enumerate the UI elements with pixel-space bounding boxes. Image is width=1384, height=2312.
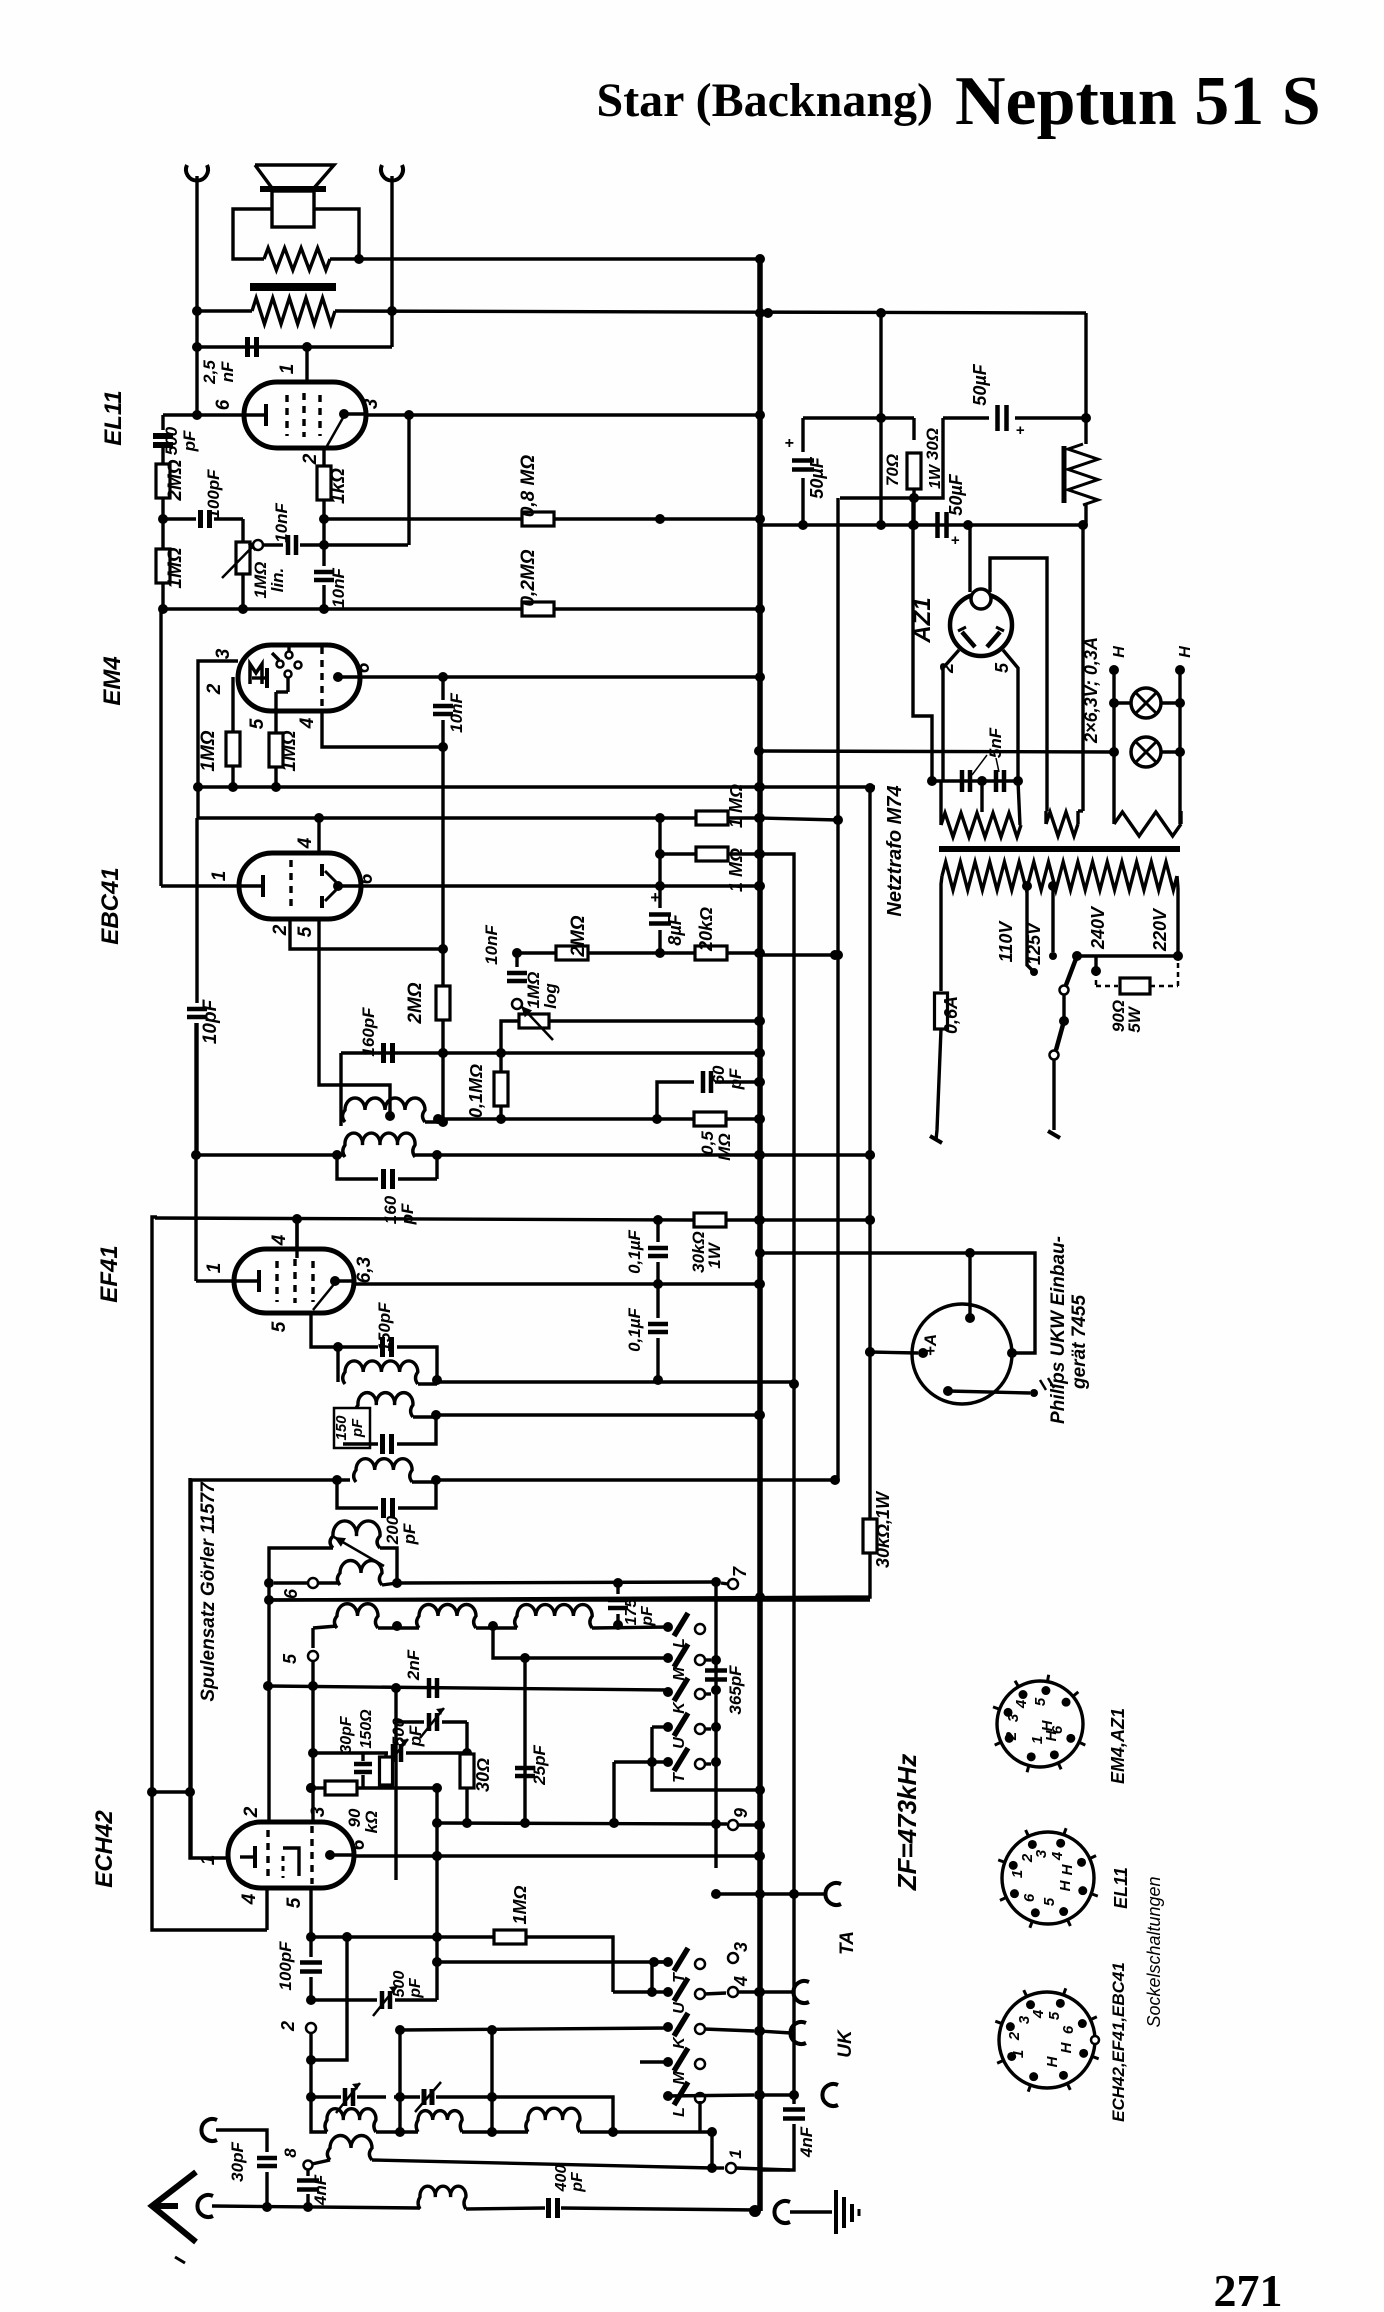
resistor 1MOhm EM4 left — [226, 732, 240, 766]
tube EM4 — [238, 645, 360, 711]
capacitor 160pF upper — [381, 1043, 386, 1063]
main HT bus — [757, 258, 763, 2211]
capacitor 60pF — [657, 1082, 694, 1119]
antenna coil primary — [418, 2186, 466, 2209]
svg-text:271: 271 — [1214, 2265, 1283, 2312]
transformer core — [939, 846, 1180, 852]
wire ECH42 pin6 anode line — [354, 1854, 759, 1857]
wire x467 down with 30 Ohm — [465, 1722, 468, 1753]
tuning coil 1 — [325, 2109, 376, 2132]
IF2 secondary coil — [356, 1393, 413, 1417]
svg-text:pF: pF — [398, 1203, 417, 1225]
EL11 grids dashed — [285, 395, 288, 436]
wire 1220 east — [759, 1218, 870, 1221]
IF1 primary coil — [343, 1133, 415, 1157]
wire x716 vertical — [714, 1582, 717, 1868]
svg-text:220V: 220V — [1150, 907, 1170, 952]
terminal 1 line — [712, 2166, 724, 2169]
primary tap 125V — [1048, 881, 1058, 891]
svg-text:100pF: 100pF — [204, 469, 223, 519]
svg-text:160pF: 160pF — [359, 1007, 378, 1057]
capacitor 100pF osc — [309, 1937, 312, 1957]
capacitor 8uF — [658, 905, 661, 908]
terminal 3 — [728, 1953, 738, 1963]
resistor 2MOhm EL11 grid — [156, 464, 170, 498]
resistor 2MOhm anode — [517, 951, 556, 954]
speaker driver — [272, 191, 314, 227]
tuning coil 3 — [526, 2108, 580, 2132]
wire x152 long vertical — [152, 1217, 267, 1930]
wire EF41 pin1 — [194, 1023, 197, 1281]
speaker terminal left — [186, 165, 208, 181]
svg-text:2: 2 — [204, 683, 225, 695]
svg-text:ECH42: ECH42 — [91, 1810, 118, 1888]
svg-text:3: 3 — [1005, 1713, 1022, 1722]
svg-text:2,5: 2,5 — [200, 360, 219, 385]
wire x1083 down to heater — [1081, 525, 1084, 811]
antenna symbol — [152, 2172, 196, 2242]
svg-text:1: 1 — [726, 2149, 745, 2158]
tuning coil 2 — [416, 2111, 462, 2132]
svg-text:ZF=473kHz: ZF=473kHz — [892, 1754, 922, 1892]
wire x396 down — [394, 1688, 397, 1880]
resistor 20kOhm — [660, 951, 695, 954]
ground symbol — [774, 2201, 790, 2223]
svg-text:50µF: 50µF — [970, 363, 990, 405]
svg-text:0,1MΩ: 0,1MΩ — [466, 1064, 486, 1118]
svg-text:400: 400 — [553, 2165, 570, 2193]
svg-text:30pF: 30pF — [228, 2142, 247, 2182]
svg-text:150pF: 150pF — [375, 1302, 394, 1352]
AZ1 pin 5 lead — [1003, 650, 1018, 781]
trimmer 500pF upper — [396, 1720, 424, 1723]
resistor 0,1MOhm — [499, 1053, 502, 1072]
svg-text:10nF: 10nF — [447, 693, 466, 733]
bus junction dots — [755, 254, 765, 264]
capacitor 2nF line — [268, 1686, 668, 1690]
svg-text:H: H — [1039, 1719, 1056, 1731]
capacitor 10nF wiper — [263, 543, 283, 546]
capacitor 10pF — [195, 818, 198, 1003]
svg-text:6: 6 — [213, 399, 234, 410]
ECH42 cathode — [240, 1855, 254, 1858]
resistor 30kOhm 1W — [694, 1213, 726, 1227]
capacitor 0,1uF upper — [656, 1220, 659, 1242]
capacitor 365pF — [705, 1668, 727, 1673]
wire line 1053 — [341, 1051, 759, 1054]
wire EF41 anode line to bus — [354, 1282, 759, 1285]
wire 4nF east vertical — [792, 2095, 795, 2104]
wire EM4 pin5 — [274, 692, 277, 733]
svg-text:kΩ: kΩ — [362, 1811, 381, 1834]
potentiometer 1MOhm log — [512, 999, 522, 1009]
wire pin3 vertical x313 — [311, 1628, 314, 1648]
svg-text:+: + — [784, 435, 793, 452]
wire line 1119 — [438, 1117, 695, 1120]
wire UKW left pin — [870, 1352, 918, 1353]
resistor 0,8MOhm screen line — [324, 517, 522, 520]
wire x794 down — [792, 1384, 795, 2100]
wire EBC41 pin2 — [290, 919, 443, 949]
svg-text:30Ω: 30Ω — [923, 428, 942, 460]
svg-text:365pF: 365pF — [726, 1665, 745, 1715]
wire coil to x440 — [425, 1120, 443, 1123]
svg-text:H: H — [1057, 1879, 1074, 1891]
svg-text:5: 5 — [247, 718, 268, 729]
AZ1 top leads — [968, 525, 971, 592]
heater winding pilot — [1114, 812, 1181, 836]
wire 160pF left leg — [339, 1053, 342, 1126]
svg-text:6: 6 — [1060, 2025, 1077, 2034]
capacitor 4nF antenna — [306, 2169, 309, 2176]
svg-text:Neptun 51 S: Neptun 51 S — [955, 63, 1321, 140]
svg-text:2×6,3V; 0,3A: 2×6,3V; 0,3A — [1081, 637, 1101, 744]
svg-text:1: 1 — [198, 1855, 219, 1866]
svg-text:5nF: 5nF — [986, 727, 1005, 758]
wire EBC41 pin5 — [319, 919, 390, 1118]
wire pot left to 0,1M — [501, 1021, 519, 1053]
EBC41 cathode — [240, 884, 262, 887]
wire 1253 to UKW — [759, 1253, 970, 1318]
svg-text:1MΩ: 1MΩ — [198, 730, 219, 771]
svg-text:8µF: 8µF — [665, 913, 685, 945]
capacitor 400pF — [546, 2198, 551, 2218]
switch contact K upper — [663, 1687, 673, 1697]
svg-text:4: 4 — [239, 1893, 260, 1905]
wire x913 to 5nF line — [913, 498, 932, 781]
tube EBC41 — [239, 853, 361, 919]
svg-text:+: + — [951, 532, 960, 549]
resistor 90 Ohm 5W dashed — [1094, 956, 1097, 969]
IF2 primary coil — [336, 1347, 339, 1382]
capacitor 150pF IF2 — [338, 1345, 378, 1348]
svg-text:50µF: 50µF — [946, 473, 966, 515]
tube EF41 — [234, 1249, 354, 1313]
EL11 anode — [339, 409, 349, 419]
svg-text:125V: 125V — [1024, 921, 1044, 965]
svg-text:EL11: EL11 — [100, 390, 127, 446]
svg-text:175: 175 — [623, 1598, 640, 1626]
wire pin3 branch down — [407, 415, 410, 545]
trimmer solid — [422, 2089, 427, 2105]
svg-text:gerät 7455: gerät 7455 — [1069, 1295, 1090, 1390]
svg-text:6: 6 — [353, 662, 374, 673]
wire trimmer line 2097 — [311, 2095, 341, 2098]
wire EL11 pin1 — [305, 347, 308, 382]
ECH42 anode — [325, 1850, 335, 1860]
socket ECH42 group — [999, 1992, 1095, 2088]
svg-text:30Ω: 30Ω — [473, 1758, 493, 1792]
svg-text:240V: 240V — [1088, 905, 1108, 950]
transformer primary winding — [942, 862, 1177, 890]
EL11 cathode — [246, 413, 266, 416]
capacitor 10nF volume — [515, 953, 518, 967]
resistor 70/30 Ohm — [912, 418, 915, 440]
svg-text:pF: pF — [407, 1977, 424, 1999]
capacitor 150pF on 1444 — [343, 1442, 378, 1445]
EM4 anode — [333, 672, 343, 682]
pilot lamp 2 — [1131, 737, 1161, 767]
field coil choke — [1084, 418, 1087, 444]
svg-text:ECH42,EF41,EBC41: ECH42,EF41,EBC41 — [1109, 1962, 1128, 2122]
resistor 1MOhm on 854 — [660, 852, 696, 855]
svg-text:2: 2 — [278, 2021, 298, 2032]
switch contact T lower — [663, 1957, 673, 1967]
wire TA line — [716, 1892, 759, 1895]
tuning line 2132 — [311, 2129, 327, 2132]
wire ECH42 pin5 — [309, 1888, 312, 1937]
UKW unit circle — [912, 1304, 1012, 1404]
output transformer primary winding — [264, 248, 330, 270]
capacitors 5nF pair — [932, 779, 1018, 782]
svg-text:pF: pF — [569, 2171, 586, 2193]
svg-text:2: 2 — [300, 453, 321, 465]
primary left lead and fuse — [941, 876, 942, 991]
svg-text:6: 6 — [281, 1588, 301, 1599]
output transformer secondary winding — [252, 298, 335, 324]
wire line 1155 to bus east — [197, 1153, 345, 1156]
wire UKW bottom pin — [948, 1391, 1030, 1393]
capacitor 160pF lower — [337, 1155, 378, 1179]
wire 1823 line with terminal 9 — [437, 1823, 727, 1824]
heater winding AZ1 — [1046, 812, 1078, 836]
svg-text:1MΩ: 1MΩ — [510, 1885, 530, 1924]
svg-text:100pF: 100pF — [276, 1941, 295, 1991]
antenna aux terminal — [201, 2119, 217, 2141]
svg-text:H: H — [1177, 646, 1194, 658]
EF41 grids dashed — [275, 1261, 278, 1302]
capacitor 50uF left — [803, 416, 914, 419]
EF41 cathode — [236, 1279, 258, 1282]
svg-text:nF: nF — [218, 361, 237, 382]
switch contact K lower — [663, 2022, 673, 2032]
svg-text:+: + — [650, 888, 660, 907]
primary 220V lead — [1177, 876, 1178, 888]
svg-text:1: 1 — [277, 364, 298, 375]
capacitor 25pF — [515, 1766, 535, 1771]
wire secondary left — [197, 309, 252, 312]
wire x660 down — [658, 818, 661, 905]
capacitor 500pF grid — [161, 415, 164, 430]
svg-text:9: 9 — [731, 1808, 751, 1818]
output transformer frame — [233, 209, 272, 259]
output transformer core — [250, 283, 336, 291]
svg-text:25pF: 25pF — [530, 1745, 549, 1786]
EM4 deflector circles — [277, 661, 284, 668]
svg-text:Sockelschaltungen: Sockelschaltungen — [1144, 1876, 1164, 2027]
svg-text:pF: pF — [180, 430, 199, 452]
capacitor 200pF — [337, 1480, 378, 1508]
wire M line 1658 — [493, 1626, 668, 1658]
svg-text:5: 5 — [284, 1897, 305, 1908]
wire EM4 pin6 to bus — [360, 675, 759, 678]
svg-text:30kΩ,1W: 30kΩ,1W — [873, 1490, 893, 1568]
wire 955 east — [759, 953, 835, 956]
trimmer 500pF mid — [313, 1751, 388, 1754]
terminal 8 and coupling coil — [304, 2161, 313, 2170]
wire x525 down — [523, 1658, 526, 1823]
wire L line to hook — [665, 2095, 754, 2096]
svg-text:500: 500 — [391, 1971, 408, 1998]
svg-text:5: 5 — [992, 662, 1012, 673]
svg-text:H: H — [1111, 646, 1128, 658]
resistor 1MOhm EM4 right — [269, 733, 283, 767]
svg-text:EM4: EM4 — [99, 656, 126, 705]
resistor 0,5MOhm — [694, 1112, 726, 1126]
svg-text:4nF: 4nF — [797, 2126, 816, 2158]
svg-text:7: 7 — [730, 1566, 750, 1577]
svg-text:10nF: 10nF — [482, 925, 501, 965]
wire EBC41 pin4 — [317, 818, 320, 853]
svg-text:2: 2 — [1006, 2031, 1023, 2041]
tube AZ1 — [950, 594, 1012, 656]
svg-text:150: 150 — [333, 1415, 350, 1441]
svg-text:K: K — [671, 2036, 688, 2049]
capacitor 0,1uF lower — [656, 1284, 659, 1318]
socket EM4 AZ1 — [997, 1681, 1083, 1767]
wire primary to bus — [359, 257, 759, 260]
wire pilot winding left — [1112, 752, 1115, 811]
svg-text:K: K — [671, 1701, 688, 1714]
osc anode coil — [191, 1478, 350, 1481]
wire x712 bottom — [710, 2132, 713, 2168]
svg-text:10nF: 10nF — [272, 503, 291, 543]
svg-text:2MΩ: 2MΩ — [405, 982, 426, 1024]
resistor 1MOhm EL11 grid2 — [161, 519, 164, 548]
capacitor 10nF EM4 — [441, 677, 444, 700]
wire 1962 line — [437, 1960, 668, 1963]
svg-text:log: log — [541, 983, 560, 1009]
svg-text:3: 3 — [1033, 1849, 1050, 1858]
svg-text:1W: 1W — [705, 1241, 724, 1268]
resistor 30kOhm 1W right — [863, 1519, 877, 1553]
terminal 2 — [306, 2023, 316, 2033]
svg-text:110V: 110V — [996, 920, 1016, 963]
svg-text:Star (Backnang): Star (Backnang) — [597, 74, 934, 127]
capacitor 50uF top — [995, 405, 1000, 431]
wire 443 vertical down — [441, 747, 444, 986]
wire 2060 jog — [311, 1937, 347, 2060]
svg-text:4: 4 — [295, 837, 316, 849]
svg-text:1: 1 — [1009, 1870, 1026, 1878]
svg-text:10nF: 10nF — [329, 568, 348, 608]
svg-text:EF41: EF41 — [96, 1245, 123, 1302]
svg-text:0,1µF: 0,1µF — [625, 1307, 644, 1351]
svg-text:2: 2 — [270, 924, 291, 936]
potentiometer 1MOhm lin — [241, 519, 244, 543]
wire EBC41 pin6 to bus — [361, 884, 759, 887]
svg-text:1MΩ: 1MΩ — [279, 730, 300, 771]
svg-text:0,1µF: 0,1µF — [625, 1229, 644, 1273]
svg-text:0,8 MΩ: 0,8 MΩ — [518, 455, 539, 518]
capacitor 50uF mid — [935, 512, 940, 538]
svg-text:1: 1 — [204, 1263, 225, 1274]
svg-text:500: 500 — [162, 426, 181, 455]
svg-text:1kΩ: 1kΩ — [328, 468, 349, 504]
wire ECH42 pin4 — [265, 1888, 268, 1930]
svg-text:pF: pF — [400, 1523, 419, 1545]
svg-text:2: 2 — [1003, 1731, 1020, 1741]
wire EF41 pin5 — [311, 1313, 338, 1347]
wire x838 down — [836, 498, 839, 1480]
svg-text:8: 8 — [281, 2148, 300, 2158]
svg-text:EBC41: EBC41 — [97, 867, 124, 944]
svg-text:0,2MΩ: 0,2MΩ — [518, 549, 539, 606]
switch contact L upper — [663, 1622, 673, 1632]
svg-text:4: 4 — [269, 1234, 290, 1246]
antenna main line — [212, 2206, 420, 2208]
svg-text:4: 4 — [1030, 2009, 1047, 2019]
wire 1600 long line — [264, 1595, 274, 1605]
wire x881 — [879, 313, 882, 525]
wire x437 mixer chain — [435, 1788, 438, 2000]
wire 498 jog — [840, 418, 943, 498]
EBC41 anode — [333, 881, 343, 891]
wire EL11 pin3 to bus — [367, 413, 759, 416]
wire 1380 east — [437, 1380, 794, 1383]
svg-text:5W: 5W — [1125, 1005, 1144, 1032]
capacitor 150pF boxed — [334, 1408, 370, 1448]
EBC41 grid dashed — [289, 860, 292, 912]
wire UK hook — [759, 2031, 791, 2033]
wire 1583 east to terminal 7 — [397, 1582, 716, 1583]
svg-text:EL11: EL11 — [1111, 1867, 1131, 1909]
wire 854 east to 794 — [759, 854, 794, 1384]
ECH42 grids — [266, 1830, 269, 1880]
capacitor 30pF — [257, 2156, 277, 2161]
svg-text:pF: pF — [726, 1068, 745, 1090]
socket EL11 — [1002, 1832, 1094, 1924]
wire EM4 pin2 — [231, 677, 234, 732]
svg-text:UK: UK — [835, 2029, 856, 2058]
svg-text:50µF: 50µF — [807, 456, 827, 498]
wire grid cap line — [197, 345, 392, 348]
svg-text:3: 3 — [213, 648, 234, 659]
AZ1 pin 2 lead — [943, 650, 959, 781]
wire EM4 pin3 — [198, 661, 238, 818]
svg-text:pF: pF — [406, 1725, 425, 1747]
svg-text:5: 5 — [1046, 2011, 1063, 2020]
wire EL11 pin6 — [163, 413, 246, 416]
tube EL11 — [244, 382, 366, 448]
svg-text:4: 4 — [731, 1976, 751, 1987]
svg-text:1: 1 — [209, 871, 230, 882]
svg-text:H: H — [1059, 1863, 1076, 1875]
svg-text:T: T — [671, 1772, 688, 1783]
svg-text:Spulensatz Görler 11577: Spulensatz Görler 11577 — [198, 1481, 219, 1702]
svg-text:1: 1 — [1010, 2050, 1027, 2058]
transformer HV winding — [941, 813, 1021, 837]
svg-text:20kΩ: 20kΩ — [696, 907, 716, 952]
svg-text:0,6A: 0,6A — [941, 996, 961, 1034]
switch contact U lower — [663, 1987, 673, 1997]
svg-text:6: 6 — [1021, 1893, 1038, 1902]
wire line 1220 — [295, 1220, 298, 1258]
wire ECH42 pin1 loop — [190, 1478, 228, 1858]
resistor 0,2MOhm line — [163, 607, 522, 610]
svg-text:H: H — [1043, 1729, 1060, 1741]
svg-text:TA: TA — [837, 1931, 858, 1955]
svg-text:H: H — [1044, 2055, 1061, 2067]
terminal 4 — [728, 1987, 738, 1997]
antenna terminal hook — [197, 2195, 213, 2217]
switch contact M upper — [663, 1653, 673, 1663]
wire 1480 east to 835 — [436, 1478, 835, 1481]
capacitor 175pF — [616, 1583, 619, 1594]
switch contact T upper — [663, 1757, 673, 1767]
svg-text:10pF: 10pF — [200, 998, 221, 1044]
svg-text:4nF: 4nF — [311, 2174, 330, 2206]
